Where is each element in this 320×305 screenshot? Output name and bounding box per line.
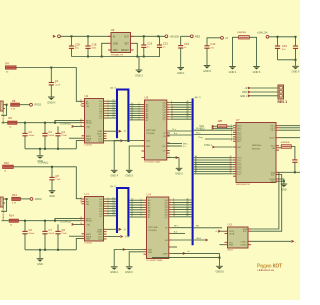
capacitor C14: [204, 42, 215, 65]
svg-text:A7: A7: [187, 214, 189, 217]
svg-text:R13: R13: [12, 193, 17, 197]
wire U7 sda to U8: [279, 171, 284, 173]
node +2.8VA arrow B: [72, 223, 82, 225]
svg-text:37: 37: [230, 172, 232, 174]
capacitor C2: [22, 122, 35, 149]
svg-text:GND 8: GND 8: [203, 70, 211, 73]
resistor R9: [8, 116, 17, 128]
node +2.8VA arrow A: [72, 125, 82, 127]
svg-text:100nF: 100nF: [28, 233, 35, 235]
svg-text:+CMP: +CMP: [162, 253, 168, 255]
svg-text:BPTC01A: BPTC01A: [147, 129, 157, 132]
svg-text:D[0..7]: D[0..7]: [110, 186, 116, 188]
svg-text:D7: D7: [131, 215, 133, 217]
svg-text:16: 16: [80, 223, 82, 225]
capacitor C4: [55, 126, 67, 148]
svg-text:1.0uF: 1.0uF: [61, 135, 67, 137]
op-amp U3: [142, 96, 170, 164]
wire U7 scl to U8: [251, 175, 282, 232]
svg-text:RD: RD: [163, 146, 167, 148]
node SDO arrow: [200, 127, 233, 130]
svg-text:XIN: XIN: [271, 148, 275, 150]
svg-text:SET: SET: [124, 43, 129, 45]
wire R13 out: [20, 198, 30, 200]
capacitor C1: [49, 68, 61, 97]
wire right cap gnd rail: [278, 59, 297, 61]
svg-text:C5: C5: [55, 174, 59, 178]
svg-text:OUT: OUT: [124, 36, 129, 38]
svg-text:GND 1: GND 1: [240, 96, 248, 98]
wire bus1B to U4: [130, 199, 144, 218]
wire U4 gnd2: [129, 252, 143, 266]
microcontroller U7: [231, 118, 279, 186]
capacitor C6: [22, 220, 35, 250]
svg-text:JTag: JTag: [198, 137, 203, 139]
ground GND-U7: [281, 184, 288, 191]
svg-text:GND C: GND C: [125, 271, 133, 274]
svg-text:GND: GND: [270, 181, 275, 183]
wire U2 to bus1: [107, 100, 117, 119]
node bus1A label: [110, 88, 116, 90]
svg-text:RESET: RESET: [121, 50, 129, 52]
svg-text:5: 5: [231, 133, 232, 135]
svg-text:GND 4: GND 4: [229, 71, 237, 74]
svg-text:U6: U6: [111, 28, 115, 32]
node C14 port: [221, 36, 229, 39]
svg-text:CTRL1: CTRL1: [240, 241, 247, 243]
ground GND-A: [37, 148, 44, 163]
wire U1 STA5 out: [107, 228, 127, 231]
op-amp U1: [80, 192, 107, 245]
svg-text:9: 9: [141, 215, 142, 217]
svg-text:U7: U7: [236, 118, 240, 122]
svg-text:JMP: JMP: [218, 120, 223, 123]
capacitor C3: [42, 122, 55, 149]
svg-text:C3: C3: [48, 130, 52, 134]
wire bus2 to U7 hi: [194, 128, 233, 135]
op-amp U2: [80, 94, 107, 147]
wire bus2 to U8: [194, 226, 222, 228]
svg-text:C1: C1: [55, 79, 59, 83]
svg-text:P9.0(3B): P9.0(3B): [149, 230, 157, 232]
wire R9 to U2 NSTB: [2, 122, 82, 124]
svg-text:GND 6: GND 6: [253, 71, 261, 74]
svg-text:15: 15: [171, 118, 173, 120]
wire R8 out: [19, 104, 29, 106]
svg-text:+2.8VA(1): +2.8VA(1): [60, 123, 71, 126]
wire right cap rail: [269, 36, 297, 38]
wire U7 sda: [279, 171, 300, 173]
wire R10 to U1: [13, 166, 81, 199]
svg-text:GND: GND: [49, 195, 55, 198]
wire U4 to bus2: [172, 197, 192, 217]
svg-text:8: 8: [231, 140, 232, 142]
capacitor C19: [141, 36, 152, 56]
resistor R10: [3, 161, 14, 173]
svg-text:CTRL2: CTRL2: [240, 245, 247, 247]
svg-text:LPC4052T-16AD: LPC4052T-16AD: [147, 259, 163, 262]
svg-text:RXD1: RXD1: [35, 104, 42, 107]
svg-text:JUMPER: JUMPER: [281, 142, 290, 144]
wire capB gnd rail: [25, 239, 82, 251]
svg-text:100nF: 100nF: [48, 233, 55, 235]
svg-text:+2.8VA(1): +2.8VA(1): [38, 162, 48, 165]
svg-text:LPC4052T-16AD: LPC4052T-16AD: [145, 161, 161, 164]
svg-text:GND 1: GND 1: [177, 72, 185, 75]
svg-text:C2: C2: [28, 130, 32, 134]
svg-text:TLM: TLM: [98, 239, 102, 241]
wire U1 TLM out: [107, 235, 130, 238]
svg-text:JUMPER: JUMPER: [237, 32, 246, 34]
svg-text:GND: GND: [148, 252, 153, 254]
node SCK arrow: [199, 125, 214, 128]
resistor R17 jumper: [233, 32, 257, 66]
wire U8 ctrl out: [251, 240, 298, 243]
bus bus1-B: [117, 188, 128, 237]
svg-text:+7A: +7A: [86, 125, 90, 128]
wire bottom rail: [152, 257, 220, 259]
node bus1B label: [110, 186, 116, 188]
capacitor C8: [55, 224, 67, 249]
wire U2 aux: [69, 137, 82, 139]
svg-text:RV2018: RV2018: [252, 149, 261, 151]
svg-text:C7: C7: [48, 228, 52, 232]
svg-text:LC4052: LC4052: [85, 243, 93, 245]
ground GND-D: [215, 266, 223, 273]
ground GND8: [203, 66, 211, 73]
ground GND9: [292, 60, 300, 74]
wire U4 right misc: [172, 226, 208, 247]
svg-text:RXD: RXD: [242, 92, 247, 94]
capacitor C20: [69, 36, 81, 56]
svg-text:C15: C15: [184, 42, 189, 46]
svg-text:1.0uF: 1.0uF: [61, 233, 67, 235]
wire U1 to bus1B: [107, 197, 117, 216]
bus bus2: [193, 96, 201, 245]
svg-text:D7: D7: [113, 116, 115, 118]
svg-text:R9: R9: [9, 116, 13, 120]
svg-text:A7: A7: [195, 171, 197, 174]
ground GND-4B: [110, 267, 118, 274]
wire top +5V rail: [60, 35, 165, 37]
capacitor C22: [292, 160, 297, 172]
svg-text:+1uF: +1uF: [55, 84, 61, 86]
resistor JMP jumper: [215, 120, 233, 128]
wire bus2 to U7 lo: [194, 155, 233, 174]
node RES port: [190, 35, 200, 38]
svg-text:2: 2: [231, 126, 232, 128]
svg-text:GND: GND: [229, 245, 234, 247]
logo radiokot: [257, 264, 283, 272]
node +5V/100 port: [165, 35, 179, 38]
wire U3 gnd2: [129, 146, 141, 170]
svg-text:GND 3: GND 3: [135, 74, 143, 77]
svg-text:radiokot.ru: radiokot.ru: [258, 269, 275, 272]
svg-text:C19: C19: [147, 41, 152, 45]
svg-text:MSP430F2132: MSP430F2132: [236, 184, 251, 186]
svg-text:GND 5: GND 5: [175, 173, 183, 176]
svg-text:R8: R8: [12, 99, 16, 103]
svg-text:9: 9: [139, 118, 140, 120]
svg-text:GND: GND: [86, 239, 91, 241]
svg-text:MAX(U)485A: MAX(U)485A: [2, 207, 5, 220]
svg-text:MAX(U)485A: MAX(U)485A: [2, 111, 5, 124]
svg-text:15: 15: [173, 215, 175, 217]
svg-text:CTRL 1: CTRL 1: [204, 145, 213, 147]
ground GND-5B: [125, 267, 133, 274]
svg-text:NSTB: NSTB: [86, 221, 92, 223]
svg-text:13: 13: [80, 105, 82, 107]
svg-text:XOUT: XOUT: [269, 138, 275, 140]
svg-text:15: 15: [80, 219, 82, 221]
svg-text:C14: C14: [210, 42, 215, 46]
svg-text:MSP430x: MSP430x: [252, 145, 262, 147]
wire U3 to bus2: [170, 100, 191, 120]
svg-text:3: 3: [231, 129, 232, 131]
svg-text:P9.0(3B): P9.0(3B): [147, 133, 155, 135]
wire U2 TLM out: [107, 140, 130, 143]
resistor R14: [9, 214, 18, 227]
connector X1A: [0, 101, 5, 124]
wire U3 right misc: [167, 129, 191, 148]
svg-text:LC4052: LC4052: [85, 145, 93, 147]
wire U2 NSTT: [54, 120, 82, 123]
svg-text:C6: C6: [28, 228, 32, 232]
wire U4 +5 out: [172, 251, 221, 266]
bus bus1-A: [117, 90, 128, 143]
svg-text:UB A: UB A: [196, 237, 201, 240]
svg-text:OUTB: OUTB: [229, 234, 235, 236]
capacitor C16: [275, 37, 288, 60]
svg-text:R4: R4: [6, 62, 10, 66]
svg-text:+5VA_5A: +5VA_5A: [257, 32, 268, 35]
svg-text:KF50BD-TR: KF50BD-TR: [111, 55, 123, 57]
wire R14 to U1 NSTB: [2, 220, 82, 222]
svg-text:GND: GND: [37, 263, 43, 266]
svg-text:100n: 100n: [91, 48, 97, 50]
capacitor C18: [85, 36, 97, 56]
svg-text:C16: C16: [282, 44, 287, 48]
svg-text:C4: C4: [61, 130, 65, 134]
svg-text:RXD2: RXD2: [35, 198, 42, 201]
svg-text:+1uF: +1uF: [55, 179, 61, 181]
node RXD1 port: [30, 103, 42, 106]
svg-text:13: 13: [80, 202, 82, 204]
ground GND-4A: [110, 170, 118, 177]
wire X1B to R13: [1, 198, 7, 211]
ground GND-5A: [125, 170, 133, 177]
svg-text:A[0..7]: A[0..7]: [195, 96, 201, 99]
resistor R13: [12, 193, 20, 205]
svg-text:GND: GND: [86, 141, 91, 143]
svg-text:U 4: U 4: [147, 193, 152, 197]
svg-text:RES 1: RES 1: [278, 100, 288, 104]
wire U8 gnd: [220, 244, 225, 246]
svg-text:R14: R14: [9, 214, 14, 218]
resistor R8: [11, 99, 19, 111]
regulator U6: [108, 28, 134, 57]
node U8 in arrow: [215, 230, 225, 233]
wire U7 gnd right: [279, 179, 285, 184]
wire bus1 to U3: [130, 103, 142, 120]
wire top gnd rail: [72, 56, 161, 58]
op-amp U4: [144, 193, 172, 263]
svg-text:D[0..7]: D[0..7]: [110, 88, 116, 90]
wire CTRL1: [198, 137, 233, 148]
svg-text:R10: R10: [4, 161, 9, 165]
ground GND-C5: [49, 191, 56, 198]
capacitor C5: [49, 167, 61, 190]
svg-text:28-D7: 28-D7: [228, 250, 235, 252]
svg-text:BPTC01A: BPTC01A: [149, 226, 159, 229]
svg-text:15: 15: [80, 121, 82, 123]
wire C14 net: [207, 38, 221, 46]
node RXD2 port: [30, 198, 42, 201]
wire C15 net: [181, 36, 191, 45]
capacitor C21: [157, 36, 168, 56]
node VIN port: [53, 35, 61, 38]
svg-text:+5V/100: +5V/100: [170, 35, 180, 38]
wire X1A to R8: [1, 104, 7, 116]
svg-text:SDO: SDO: [200, 128, 205, 130]
svg-text:D7: D7: [113, 214, 115, 216]
wire U8 sda up: [251, 172, 279, 229]
svg-text:D7: D7: [131, 118, 133, 120]
svg-text:C20: C20: [75, 42, 80, 46]
ground GND1: [177, 68, 185, 75]
svg-text:VSS: VSS: [146, 141, 151, 143]
svg-text:GND/D: GND/D: [215, 271, 223, 274]
svg-text:ABS: ABS: [113, 49, 118, 52]
node RES1 arrows: [240, 87, 250, 98]
wire U2 STA5 out: [107, 130, 127, 133]
svg-text:GND: GND: [113, 43, 118, 45]
svg-text:16: 16: [80, 125, 82, 127]
svg-text:U3: U3: [145, 96, 149, 100]
wire U7 xout: [279, 137, 300, 139]
svg-text:U2: U2: [85, 94, 89, 98]
connector RES1: [278, 85, 288, 104]
capacitor C17: [293, 37, 298, 60]
svg-text:U 1: U 1: [85, 192, 90, 196]
svg-text:7: 7: [231, 138, 232, 140]
svg-text:100nF: 100nF: [48, 135, 55, 137]
svg-text:100nF: 100nF: [28, 135, 35, 137]
ground GND4: [229, 67, 237, 74]
svg-text:GND 9: GND 9: [292, 71, 300, 74]
net +2.8VA label B: [60, 221, 71, 224]
wire U4 vdd gnd: [114, 248, 143, 266]
wire RES1 pins: [251, 88, 279, 96]
ground GND5-mid: [175, 168, 183, 175]
connector X1B: [0, 197, 5, 220]
svg-text:C8: C8: [61, 228, 65, 232]
svg-text:RCa: RCa: [196, 132, 201, 134]
resistor JUMPER2: [279, 142, 295, 160]
svg-text:9: 9: [108, 214, 109, 216]
wire U3 gnd5: [167, 154, 179, 168]
ground GND-B: [37, 249, 44, 266]
net +2.8VA label B2: [38, 162, 48, 165]
svg-text:GND 4: GND 4: [110, 175, 118, 178]
svg-text:CA: CA: [86, 203, 90, 206]
svg-text:GND H: GND H: [47, 101, 55, 104]
node +5VA port: [257, 32, 269, 39]
photo-ic U8: [225, 223, 252, 252]
capacitor C7: [42, 220, 55, 250]
wire U1 NSTT: [54, 218, 82, 221]
ground GND-C1: [47, 97, 55, 104]
svg-text:A7: A7: [187, 117, 189, 120]
svg-text:GND A: GND A: [110, 271, 118, 274]
svg-text:GND 5: GND 5: [125, 175, 133, 178]
svg-text:+2.8VA(1): +2.8VA(1): [60, 221, 71, 224]
svg-text:C21: C21: [163, 41, 168, 45]
svg-text:NSTB: NSTB: [86, 123, 92, 125]
svg-text:TLM: TLM: [98, 141, 102, 143]
svg-text:C18: C18: [91, 42, 96, 46]
wire R4 to U2: [16, 67, 82, 102]
resistor R4: [6, 62, 17, 74]
svg-text:9: 9: [108, 116, 109, 118]
svg-text:6: 6: [231, 136, 232, 138]
wire U7 right top: [279, 126, 300, 131]
wire U6 set: [134, 43, 138, 56]
ground GND3: [135, 57, 143, 78]
wire U1 aux: [69, 235, 82, 237]
svg-text:IN: IN: [113, 36, 116, 38]
svg-text:CA: CA: [86, 105, 90, 108]
net +2.8VA label A: [60, 123, 71, 126]
svg-text:GND: GND: [146, 146, 151, 148]
ground GND6: [253, 67, 261, 74]
svg-text:1: 1: [231, 124, 232, 126]
svg-text:U 5: U 5: [228, 223, 233, 227]
wire U3 vss gnd: [114, 141, 141, 170]
node rail junctions: [71, 35, 160, 37]
svg-text:RES: RES: [195, 35, 200, 38]
svg-text:+7A: +7A: [86, 223, 90, 226]
wire U6 gnd: [102, 43, 108, 56]
wire capA gnd rail: [25, 141, 82, 150]
capacitor C15: [178, 42, 189, 67]
svg-text:4: 4: [231, 131, 232, 133]
